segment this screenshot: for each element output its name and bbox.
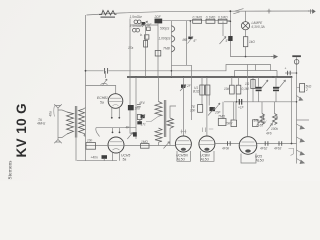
wire V5 output right [257,143,297,145]
tube V5 output [239,137,257,155]
svg-text:2ΩF: 2ΩF [154,15,162,19]
svg-text:b.: b. [140,33,143,37]
wire fork to primary top [58,110,67,112]
wire chain to mains rail [227,20,230,22]
resistor R17 horizontal box [218,119,226,126]
wire secondary to ground rail [75,138,77,161]
oscillator coil right rail [186,21,188,66]
wire left vertical rail [85,15,87,161]
svg-text:1kΩ: 1kΩ [249,40,255,44]
connector arrow T3 [297,150,305,155]
capacitor C22 coupling plus [285,72,297,74]
resistor R1 mains dropper zigzag [99,10,117,15]
svg-text:TMB: TMB [163,47,171,51]
resistor R1 underbar [101,16,116,18]
svg-text:10n: 10n [190,109,196,113]
connector arrow T2 [297,137,305,142]
coil L2 [134,20,138,24]
tube V4 [206,77,208,136]
tube V1 triode-heptode [108,94,123,109]
wire top line end arrow [308,9,315,14]
label 40u vertical [49,111,53,117]
connector arrow T1 [297,124,305,129]
tube V5 heater U wire [241,154,256,164]
resistor R15 box [231,77,233,85]
trimmer TC2 [189,21,191,36]
wire padder to osc [162,20,230,22]
svg-text:5a: 5a [100,101,104,105]
svg-text:17a: 17a [128,46,134,50]
capacitor C21 electrolytic dark with arrow [275,77,277,87]
svg-text:4F6: 4F6 [266,132,272,136]
capacitor C4 cathode electrolytic [102,155,108,159]
wire curve to V2 grid [96,128,100,137]
svg-text:1MΩ: 1MΩ [141,140,148,144]
svg-text:10k: 10k [254,119,260,123]
potentiometer P1 volume [260,114,265,125]
tube V2 lower pins to chassis [113,152,120,161]
L4 winding humps [172,26,175,52]
junction dots on bus [135,76,137,78]
svg-text:B1Ω: B1Ω [193,90,200,94]
svg-text:4F62: 4F62 [260,147,267,151]
wire T2 tertiary leads [170,106,176,118]
resistor R16 box [237,77,239,85]
trimmer TC4 arrow [127,133,133,140]
svg-text:0,1MΩ: 0,1MΩ [206,16,216,20]
potentiometer P2 tone [273,114,278,125]
top component cluster left rail [129,19,131,134]
wire cluster vertical 2 [157,24,159,78]
capacitor C9 dark [228,36,232,41]
svg-text:5a: 5a [123,158,127,162]
earth terminal fork lower [54,140,62,144]
capacitor C11 dark on wire [133,132,137,136]
wire bus end vertical [291,77,293,144]
wire heater return with arrow [230,56,271,58]
svg-text:1,000pS: 1,000pS [159,37,172,41]
bracket near terminals [289,149,295,156]
trimmer TC3 [222,21,224,36]
series cap on branch [137,105,141,107]
svg-text:+: + [285,67,287,71]
resistor R11 box on coupling [141,144,150,149]
connector arrow mid right [297,96,303,101]
capacitor C10 dark [137,121,142,124]
trimmer TC1 [101,83,108,84]
svg-text:10k: 10k [224,87,230,91]
capacitor C5 small dark [142,22,146,25]
wire osc bottom [172,65,192,77]
tube V2 top pins [113,128,120,132]
resistor R9 small box [137,115,142,120]
svg-text:1,5mΩbr: 1,5mΩbr [130,15,143,19]
wire coupling line [96,127,136,129]
tube V5 top lead [247,65,249,137]
wire T2 primary bottom [146,116,159,121]
switch S1 on mains [233,9,243,14]
tube V3 [182,77,184,136]
wire cluster vertical [145,25,147,77]
bracket for 40u [53,106,56,117]
wire vertical 191 [190,77,192,120]
tube V3 heater U wire [177,151,191,161]
connector arrow T4 [297,159,305,164]
svg-text:10n: 10n [87,139,93,143]
wire V2 to V3 coupling [124,145,175,147]
wire HT bus (thick) [127,76,292,78]
svg-text:4MHz: 4MHz [37,122,46,126]
capacitor C17 series [279,141,282,146]
resistor R3 grid leak box [86,143,96,150]
wire top mains line [87,11,310,15]
svg-text:2: 2 [305,88,308,92]
wire primary bottom to earth fork [58,134,67,138]
svg-text:TMΩ: TMΩ [218,115,226,119]
capacitor C6 box [147,27,151,31]
wire V2 grid left [86,145,109,147]
tube V2 [108,137,124,153]
capacitor C18 dark with arrow [210,107,216,111]
wire screen feed line [234,70,270,72]
resistor R14 box TE [198,105,203,113]
model text KV 10 G [14,103,29,158]
svg-text:500pS: 500pS [160,27,170,31]
trimmer TC6 arrow [215,103,221,110]
resistor R13 box [205,85,210,95]
resistor R18 box [231,120,237,127]
tube V1 lower pins [112,108,120,117]
wire AVC line horizontal [86,70,104,72]
capacitor C15 series [228,141,231,146]
capacitor C7 box [145,35,149,39]
svg-text:0,1M: 0,1M [242,87,249,91]
tube V4 heater U wire [201,151,215,161]
wire antenna rail [57,108,59,140]
svg-text:40u: 40u [49,111,53,117]
resistor R19 box [253,120,259,127]
capacitor C13 with arrow [141,115,145,118]
wire terminal column [296,120,298,164]
wire secondary top lead [84,108,86,109]
IF transformer T2 core [163,100,165,137]
svg-text:KV 10 G: KV 10 G [14,103,29,158]
wire secondary bottom lead [84,135,86,137]
wire osc tap down [170,65,172,77]
IF transformer T2 secondary [155,128,162,142]
wire detector output line [224,101,297,103]
resistor R21 small box [155,51,161,57]
svg-text:+40n: +40n [91,156,98,160]
brand text Siemens [8,161,14,180]
wire vertical from bus at 136 [135,77,137,139]
wire V4 to V5 coupling [215,143,239,145]
polarity tick on mains [267,9,271,14]
svg-text:100k: 100k [271,127,278,131]
trimmer TC5 arrow [164,142,170,149]
IF transformer T2 primary [158,77,160,102]
wire chassis bottom left [77,160,117,162]
wire grid line to V1 [86,86,116,94]
resistor R5 box [193,19,202,23]
wire phono branch vertical [296,57,298,120]
svg-text:0,1MΩ: 0,1MΩ [218,16,228,20]
resistor R7 box [218,19,227,23]
trimmer TC7 arrow [267,124,273,132]
capacitor C19 series dark on line [239,99,241,105]
transformer T1 core [74,106,76,138]
lamp LA1 dial lamp [245,11,247,22]
capacitor C8 padder dark box [155,19,163,24]
capacitor C16 series [265,141,268,146]
resistor R4 box [144,41,148,48]
component Z1 right [297,87,300,89]
svg-text:ECH81: ECH81 [97,96,108,100]
svg-text:Siemens: Siemens [8,161,14,180]
resistor R8 below lamp [245,30,247,37]
svg-text:17c: 17c [141,123,147,127]
oscillator coil L4 left [171,21,173,66]
trimmer arrow on C5 [142,21,148,27]
svg-text:1Ω: 1Ω [245,82,250,86]
transformer T1 secondary winding [79,109,85,136]
capacitor C14 dark with arrow near V3 [181,85,185,88]
resistor R12 box below bus [201,77,203,105]
capacitor C23 top bar [292,55,301,57]
capacitor C12 dark 10u [128,105,134,110]
capacitor C20 electrolytic dark with arrow [258,77,260,87]
svg-text:4F63: 4F63 [274,147,281,151]
transformer T1 primary winding [67,112,74,134]
resistor R20 below bus [252,77,254,102]
antenna terminal fork upper [54,104,62,108]
capacitor C1 series on AVC line [105,68,108,74]
IF transformer T2 tertiary [167,118,174,128]
svg-text:AL5U: AL5U [200,158,210,162]
svg-text:0,1MΩ: 0,1MΩ [193,16,203,20]
svg-text:70kV: 70kV [225,122,233,126]
resistor R6 box [206,19,215,23]
svg-text:6,3V0,3A: 6,3V0,3A [252,25,265,29]
jack J1 circle [294,60,299,65]
svg-text:4F0k: 4F0k [222,147,229,151]
coil L3 [133,28,137,32]
